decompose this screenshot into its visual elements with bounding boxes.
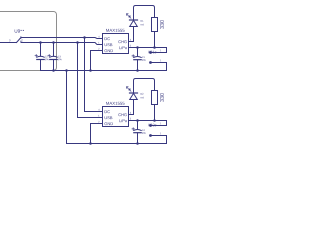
LED D1 arrow1 bbox=[129, 16, 131, 18]
label sw pin2 bbox=[21, 39, 22, 41]
wire usb feed bbox=[78, 43, 103, 118]
label U1 GND bbox=[105, 49, 114, 52]
wire LED U2 to loop bbox=[134, 79, 136, 94]
IC U1 pin CHG bbox=[129, 41, 134, 43]
wire DC net bbox=[21, 38, 103, 39]
wire dc feed bbox=[85, 38, 103, 112]
wire ground bus top bbox=[41, 70, 167, 72]
label U9 marks bbox=[21, 30, 22, 31]
label conn JP1 bbox=[148, 51, 156, 54]
LED D2 arrow1 bbox=[129, 89, 131, 91]
capacitor CU2 lead bottom bbox=[137, 133, 139, 144]
capacitor C3 plate- bbox=[50, 59, 57, 61]
label U9 bbox=[15, 29, 20, 32]
label C2 value bbox=[45, 58, 49, 60]
label C3 name bbox=[58, 56, 61, 58]
LED D2 triangle bbox=[130, 93, 138, 99]
wire chg U1 to LED bbox=[133, 27, 135, 42]
node bus2 gnd U2 bbox=[89, 142, 92, 145]
capacitor CU1 plate+ bbox=[134, 56, 141, 59]
wire gnd U1 bbox=[91, 51, 98, 71]
wire chg U2 to LED bbox=[133, 100, 135, 115]
label U1 pin4 bbox=[98, 36, 99, 38]
capacitor C2 lead bottom bbox=[40, 60, 42, 71]
connector JP2 pin2 bbox=[149, 134, 152, 137]
node bus cap2 bbox=[52, 69, 55, 72]
capacitor C3 lead top bbox=[53, 43, 55, 57]
wire JP2 pin2 to gnd bbox=[151, 136, 167, 144]
capacitor CU2 lead top bbox=[137, 121, 139, 130]
label U1 pin5 bbox=[130, 45, 131, 47]
capacitor CU1 lead top bbox=[137, 48, 139, 57]
LED D2 cathode bar bbox=[130, 92, 138, 94]
label U2 pin2 bbox=[98, 121, 99, 123]
IC U1 pin BAT bbox=[129, 47, 134, 49]
label U2 pin3 bbox=[130, 112, 131, 114]
capacitor C2 plus sign bbox=[35, 55, 37, 57]
switch U9 contact lower bbox=[20, 41, 22, 43]
label U2 pin5 bbox=[130, 118, 131, 120]
label conn JP2 bbox=[148, 124, 156, 127]
node cap tap U1 bbox=[136, 46, 139, 49]
capacitor CU1 plate- bbox=[134, 59, 141, 61]
resistor R2 box bbox=[152, 91, 158, 105]
label U2 GND bbox=[105, 122, 114, 125]
label U2 CHG bbox=[118, 113, 126, 116]
label cap U2 name bbox=[142, 129, 145, 131]
wire R2 to bat bbox=[154, 105, 156, 121]
capacitor CU2 plate- bbox=[134, 132, 141, 134]
node dc feed tap bbox=[83, 36, 86, 39]
IC U2 MAX1555 box bbox=[103, 107, 129, 127]
label U1 DC bbox=[105, 37, 110, 40]
label U1 LiPo bbox=[119, 46, 127, 49]
connector JP1 pin1 bbox=[149, 51, 152, 54]
label LEDU2 value bbox=[141, 97, 144, 99]
label U1 pin1 bbox=[98, 42, 99, 44]
wire LiPo net U2 bbox=[134, 121, 167, 126]
IC U2 pin USB bbox=[98, 117, 103, 119]
wire gnd U2 bbox=[91, 124, 98, 144]
wire gnd link bbox=[66, 71, 68, 144]
label JP2 pinno1 bbox=[160, 123, 161, 125]
label 330 U1 bbox=[160, 20, 164, 29]
capacitor C3 plate+ bbox=[50, 55, 57, 58]
capacitor CU1 lead bottom bbox=[137, 60, 139, 71]
wire loop top U2 bbox=[136, 79, 155, 91]
label U2 LiPo bbox=[119, 119, 127, 122]
LED D2 arrow2 bbox=[127, 87, 129, 89]
capacitor CU2 plate+ bbox=[134, 129, 141, 132]
IC U2 pin DC bbox=[98, 111, 103, 113]
label U1 CHG bbox=[118, 40, 126, 43]
label C3 value bbox=[58, 58, 62, 60]
node cap tap U2 bbox=[136, 119, 139, 122]
IC U1 pin GND bbox=[98, 50, 103, 52]
wire JP1 pin2 to gnd bbox=[151, 63, 167, 71]
frame border (gray, cropped) bbox=[0, 12, 57, 71]
label U2 DC bbox=[105, 110, 110, 113]
capacitor C3 lead bottom bbox=[53, 60, 55, 71]
label U2 pin1 bbox=[98, 115, 99, 117]
label U2 pin4 bbox=[98, 109, 99, 111]
label U1 pin3 bbox=[130, 39, 131, 41]
node bus cap C1 bbox=[136, 69, 139, 72]
IC U1 pin USB bbox=[98, 44, 103, 46]
node bus gnd link bbox=[65, 69, 68, 72]
wire loop top U1 bbox=[136, 6, 155, 18]
IC U2 pin CHG bbox=[129, 114, 134, 116]
label LEDU2 name bbox=[141, 93, 144, 95]
wire LiPo net U1 bbox=[134, 48, 167, 53]
node R2 bat bbox=[153, 119, 156, 122]
IC U2 pin BAT bbox=[129, 120, 134, 122]
LED D1 cathode bar bbox=[130, 19, 138, 21]
capacitor CU1 plus sign bbox=[132, 55, 134, 57]
label U1 USB bbox=[105, 43, 113, 46]
wire ground bus bottom bbox=[67, 143, 167, 145]
label cap U2 value bbox=[142, 132, 146, 134]
IC U1 MAX1555 box bbox=[103, 34, 129, 54]
IC U1 pin DC bbox=[98, 38, 103, 40]
wire switch common bbox=[0, 42, 17, 44]
capacitor C2 plate+ bbox=[37, 55, 44, 58]
capacitor C2 plate- bbox=[37, 59, 44, 61]
label cap U1 name bbox=[142, 56, 145, 58]
label JP1 pinno2 bbox=[160, 60, 161, 62]
label MAX1555 U2 bbox=[106, 102, 124, 105]
connector JP2 pin1 bbox=[149, 124, 152, 127]
node cap2 tap bbox=[52, 41, 55, 44]
label JP1 pinno1 bbox=[160, 50, 161, 52]
node bus gnd U1 bbox=[89, 69, 92, 72]
resistor R1 box bbox=[152, 18, 158, 32]
label cap U1 value bbox=[142, 59, 146, 61]
node bus2 cap C4 bbox=[136, 142, 139, 145]
label C2 name bbox=[45, 56, 48, 58]
wire LED U1 to loop bbox=[134, 6, 136, 21]
LED D1 arrow2 bbox=[127, 14, 129, 16]
label MAX1555 U1 bbox=[106, 29, 124, 32]
wire USB net bbox=[21, 43, 103, 45]
capacitor C2 lead top bbox=[40, 43, 42, 57]
label JP2 pinno2 bbox=[160, 133, 161, 135]
label U2 USB bbox=[105, 116, 113, 119]
label sw pin3 bbox=[9, 39, 10, 41]
IC U2 pin GND bbox=[98, 123, 103, 125]
LED D1 triangle bbox=[130, 20, 138, 26]
connector JP1 pin2 bbox=[149, 61, 152, 64]
label LEDU1 value bbox=[141, 24, 144, 26]
wire R1 to bat bbox=[154, 32, 156, 48]
switch U9 lever bbox=[17, 38, 21, 43]
label U1 pin2 bbox=[98, 48, 99, 50]
label LEDU1 name bbox=[141, 20, 144, 22]
node R1 bat bbox=[153, 46, 156, 49]
capacitor C3 plus sign bbox=[48, 55, 50, 57]
node cap1 tap bbox=[39, 41, 42, 44]
capacitor CU2 plus sign bbox=[132, 128, 134, 130]
label 330 U2 bbox=[160, 93, 164, 102]
switch U9 contact upper bbox=[20, 37, 22, 39]
node usb feed tap bbox=[76, 41, 79, 44]
